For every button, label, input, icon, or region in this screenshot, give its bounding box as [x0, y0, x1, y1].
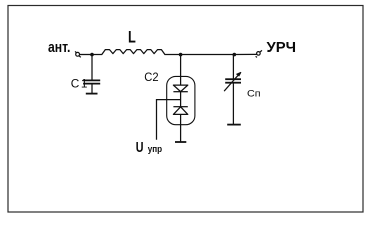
svg-text:упр: упр — [148, 144, 162, 155]
ground (below Cn) — [227, 124, 241, 126]
svg-text:ант.: ант. — [48, 39, 70, 55]
svg-text:L: L — [128, 28, 136, 47]
varicap diode VD2 (bottom, anode down) — [173, 107, 187, 115]
varicap diode VD1 (top, anode up) — [173, 85, 187, 92]
terminal ант. (input terminal circle) — [75, 51, 81, 57]
ground (below C2) — [175, 141, 186, 143]
terminal УРЧ (output terminal circle) — [256, 50, 262, 57]
svg-text:C1: C1 — [71, 76, 89, 90]
label ант. (antenna) — [48, 39, 70, 55]
svg-text:УРЧ: УРЧ — [267, 40, 296, 56]
wire: node C down to Cn — [232, 55, 234, 79]
node A (junction dot, antenna/C1/L) — [90, 53, 94, 57]
wire: node C to УРЧ terminal — [234, 53, 256, 55]
wire: control voltage Uупр to varicap common node — [157, 100, 181, 140]
svg-text:U: U — [136, 139, 144, 155]
inductor L — [92, 50, 181, 55]
wire: node B to node C — [181, 54, 235, 56]
ground (below C1) — [86, 93, 98, 95]
label U упр (control voltage) — [136, 139, 162, 155]
wire: VD1 cathode to VD2 cathode (common node) — [180, 92, 182, 107]
node C (junction dot, Cn branch) — [233, 53, 237, 57]
wire: node A down to C1 — [91, 55, 93, 80]
C2 package envelope (stadium outline) — [167, 76, 195, 124]
capacitor C1 — [83, 80, 100, 93]
svg-text:Cп: Cп — [247, 89, 261, 99]
wire: ант terminal to node A — [80, 54, 93, 56]
svg-text:C2: C2 — [144, 72, 158, 84]
node B (junction dot, L/C2 branch) — [179, 53, 183, 57]
wire: VD2 anode down through envelope — [180, 114, 182, 141]
wire: node B down to varicap C2 — [180, 55, 182, 86]
trimmer capacitor Cn — [225, 79, 241, 124]
arrow through Cn (variable capacitor) — [224, 73, 240, 91]
